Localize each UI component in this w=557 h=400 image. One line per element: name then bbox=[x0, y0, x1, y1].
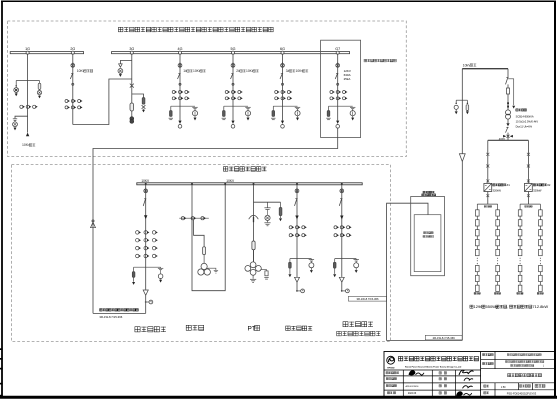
svg-text:10Kv: 10Kv bbox=[77, 69, 85, 73]
contact dot bbox=[179, 83, 181, 85]
fuse branch with ground bbox=[328, 106, 330, 110]
SVG cabinet inner label bbox=[424, 232, 426, 234]
svg-text:2R-1W-8.7/15-366: 2R-1W-8.7/15-366 bbox=[433, 336, 456, 340]
string header tiny label bbox=[484, 206, 486, 208]
CT cluster 4x3 bbox=[136, 231, 140, 235]
cable code box 2R-1W-8.7/15-366 bbox=[425, 335, 462, 340]
PT cabinet top branch bar bbox=[254, 201, 281, 203]
svg-text:#1: #1 bbox=[507, 183, 511, 187]
disconnector bbox=[144, 198, 146, 200]
plug arrow bbox=[144, 215, 147, 219]
bus junction dots bbox=[145, 183, 147, 185]
cable clock symbol bbox=[341, 282, 343, 290]
cable termination triangle bbox=[143, 290, 148, 295]
PT branch bbox=[310, 259, 312, 260]
PV string column x=520.1 bbox=[519, 204, 521, 256]
breaker symbol bbox=[341, 188, 343, 189]
string name tiny label bbox=[537, 292, 539, 294]
svg-text:3#: 3# bbox=[286, 69, 290, 73]
fuse branch with ground bbox=[170, 106, 172, 110]
metering PT drop wire bbox=[194, 220, 205, 247]
title block outer frame bbox=[384, 352, 555, 397]
svg-text:PSD-FD024002(2F)SY03: PSD-FD024002(2F)SY03 bbox=[507, 391, 537, 395]
PV string column x=477.3 bbox=[476, 204, 478, 256]
breaker symbol bbox=[296, 188, 298, 189]
signature cursive row3 bbox=[463, 386, 473, 389]
inverter drop wire bbox=[487, 140, 489, 183]
SVG cabinet inner box bbox=[414, 215, 441, 272]
capacitor-PT drop bbox=[267, 202, 269, 208]
svg-text:10KV: 10KV bbox=[141, 179, 150, 183]
PT 4-winding cloverleaf bbox=[250, 262, 256, 268]
PV string column x=540.4 bbox=[539, 204, 541, 256]
PT branch with earthing bbox=[245, 106, 250, 108]
svg-text:,: , bbox=[507, 304, 508, 309]
disconnector bbox=[231, 73, 233, 75]
wire to riser bbox=[145, 303, 147, 314]
drawout arc on PT feeder bbox=[249, 215, 259, 219]
metering PT 3-winding cluster bbox=[201, 263, 207, 269]
contact dot bbox=[232, 83, 234, 85]
DC header wire bbox=[487, 192, 489, 205]
label (reserved installation position) bbox=[337, 331, 342, 336]
cable terminal triangle bbox=[459, 154, 465, 162]
breaker symbol bbox=[179, 62, 181, 63]
CT cluster 2x3 bbox=[172, 91, 175, 94]
feeder main wire x=337.7 bbox=[337, 54, 339, 121]
cable destination annotation (dark) bbox=[100, 309, 102, 311]
PT branch with earthing bbox=[295, 106, 300, 108]
3G main fuse bbox=[130, 103, 134, 111]
load switch rect bbox=[507, 88, 510, 94]
dashed enclosure: original switch station bbox=[8, 21, 407, 157]
PT cluster earthing bbox=[252, 275, 254, 279]
label PV outgoing cabinet bbox=[135, 327, 140, 332]
metering CT row bbox=[179, 217, 209, 219]
cabinet box around feeder G7 bbox=[321, 40, 361, 137]
10KV busbar of PV station bbox=[137, 183, 362, 185]
PT branch bbox=[160, 267, 162, 268]
svg-text:4G: 4G bbox=[178, 47, 183, 51]
cable arrow and termination circle bbox=[178, 121, 181, 124]
tee bar bbox=[335, 258, 357, 260]
feeder main wire x=180 bbox=[179, 54, 181, 121]
plug arrow bbox=[295, 216, 298, 220]
svg-text:3R-1W-8.7/15-366: 3R-1W-8.7/15-366 bbox=[356, 297, 379, 301]
svg-text:10.5±2x2.5%/0.4kV: 10.5±2x2.5%/0.4kV bbox=[516, 119, 539, 123]
bypass PT branch bbox=[508, 79, 514, 106]
PT branch with earthing bbox=[350, 106, 355, 108]
tee bar bbox=[134, 266, 161, 268]
branch tee bar bbox=[224, 105, 248, 107]
string name tiny label bbox=[494, 292, 496, 294]
3G drawout mark bbox=[130, 84, 134, 88]
bus-tie jumper wire 2G to 3G bbox=[73, 79, 132, 125]
CT row on 1G bbox=[20, 105, 23, 108]
feeder 1G incoming cable bay: main wire bbox=[27, 54, 29, 133]
PV string column x=497.6 bbox=[497, 204, 499, 256]
PV plant 10kV bus bbox=[462, 68, 508, 70]
svg-text:5G: 5G bbox=[231, 47, 236, 51]
svg-text:2024.06: 2024.06 bbox=[408, 393, 417, 395]
PT cabinet main wire bbox=[253, 185, 255, 262]
signature blob row1 bbox=[409, 371, 415, 375]
svg-text:A2340123456: A2340123456 bbox=[406, 385, 420, 388]
PV outgoing feeder main wire bbox=[145, 185, 147, 290]
svg-text:Hunan Power Source Electric Po: Hunan Power Source Electric Power Survey… bbox=[405, 366, 462, 369]
3G arrester branch bbox=[120, 61, 131, 64]
transformer branch: disconnector bbox=[507, 69, 509, 77]
CT cluster 2x3 bbox=[225, 91, 228, 94]
fuse branch with ground bbox=[223, 106, 225, 110]
svg-text:10Kv: 10Kv bbox=[296, 69, 304, 73]
grid-tie inverter box bbox=[525, 183, 533, 191]
SVG cabinet outer box bbox=[411, 197, 445, 276]
3G fused PT branch bbox=[132, 94, 144, 98]
cable termination triangle bbox=[295, 277, 300, 282]
3G voltage transformer (dark twin circles) bbox=[130, 117, 134, 121]
fuse branch bbox=[133, 267, 135, 272]
feeder 1G branch bar bbox=[16, 80, 39, 82]
cable clock symbol bbox=[145, 295, 147, 301]
svg-text:HPSED: HPSED bbox=[387, 367, 395, 369]
disconnector bbox=[295, 198, 297, 200]
cabin title label bbox=[223, 167, 227, 171]
arrester with surge counter (left drop of 1G) bbox=[15, 81, 17, 86]
branch tee bar bbox=[329, 105, 353, 107]
titleblock left labels bbox=[386, 372, 388, 374]
fuse drop with arrow bbox=[280, 202, 282, 207]
busbar II (sections 3G-G7) bbox=[112, 52, 350, 54]
2G contact dot bbox=[72, 83, 74, 85]
CT square dots bbox=[507, 102, 509, 104]
dashed enclosure: PV switching station prefab cabin bbox=[12, 165, 391, 342]
cable code box 3R-1W-8.7/15-366 (feeder 5) bbox=[348, 296, 386, 301]
CT cluster 2x3 bbox=[334, 226, 337, 229]
400V busbar bbox=[488, 139, 529, 141]
PT branch with earthing bbox=[192, 106, 197, 108]
plug arrow bbox=[340, 216, 343, 220]
SVG cabinet top label bbox=[423, 191, 425, 193]
metering cabinet outline bbox=[192, 185, 225, 291]
svg-text:Dyn11 Uk=6%: Dyn11 Uk=6% bbox=[516, 124, 533, 128]
grid-tie inverter box bbox=[484, 183, 492, 191]
breaker symbol bbox=[145, 188, 147, 189]
horizontal wire to station riser bbox=[93, 312, 146, 314]
contact dot bbox=[281, 83, 283, 85]
disconnector bbox=[178, 73, 180, 75]
company logo bbox=[387, 356, 395, 364]
drawing title: PV primary connection diagram bbox=[508, 374, 511, 377]
tee bar bbox=[290, 258, 312, 260]
inverter drop wire bbox=[527, 140, 529, 183]
busbar I (sections 1G-2G) bbox=[10, 52, 83, 54]
2G CT cluster 2x3 bbox=[65, 100, 68, 103]
svg-text:3G: 3G bbox=[129, 47, 134, 51]
svg-text:712.8kW: 712.8kW bbox=[532, 304, 548, 309]
svg-text:#2: #2 bbox=[547, 183, 551, 187]
svg-text:10Kv: 10Kv bbox=[193, 69, 201, 73]
feeder 2G incoming breaker bay bbox=[72, 54, 74, 125]
left border fold ticks bbox=[0, 348, 3, 350]
label metering cabinet bbox=[186, 325, 191, 330]
PT cabinet line to windings bbox=[253, 250, 255, 262]
PV feeder main wire x=341.8 bbox=[341, 185, 343, 278]
label PV incoming cabinet bbox=[286, 326, 290, 330]
svg-text:10Kv: 10Kv bbox=[22, 143, 30, 147]
contact dot bbox=[337, 83, 339, 85]
breaker symbol bbox=[232, 62, 234, 63]
CT cluster 2x3 bbox=[289, 226, 292, 229]
PT cabinet fuse bbox=[252, 241, 255, 250]
page border frame bbox=[1, 0, 556, 2]
string name tiny label bbox=[474, 292, 476, 294]
PT resistor branch bbox=[260, 270, 266, 271]
signature cursive row1 col2 bbox=[459, 370, 474, 375]
LV drawout breaker marks bbox=[503, 135, 506, 138]
scale row bbox=[484, 385, 486, 387]
wire SVG cabinet to PV riser bbox=[387, 203, 463, 340]
svg-text:25kA: 25kA bbox=[344, 77, 351, 81]
PV capacity caption bbox=[470, 305, 473, 308]
disconnector bbox=[336, 73, 338, 75]
riser wire with cable terminal bbox=[461, 69, 463, 154]
2G disconnector bbox=[71, 73, 73, 75]
string name tiny label bbox=[517, 292, 519, 294]
PT fuse drop (right drop of 1G) bbox=[39, 81, 41, 84]
svg-text:6G: 6G bbox=[280, 47, 285, 51]
1G earthing PT branch bbox=[15, 116, 28, 118]
svg-text:10Kv: 10Kv bbox=[246, 69, 254, 73]
svg-text:G7: G7 bbox=[335, 47, 340, 51]
drawing number row bbox=[484, 392, 486, 394]
feeder 3G PT bay main wire bbox=[131, 54, 133, 117]
breaker symbol bbox=[282, 62, 284, 63]
PT branch bbox=[355, 259, 357, 260]
svg-text:2#: 2# bbox=[236, 69, 240, 73]
metering PT ground bbox=[207, 268, 216, 270]
LV disconnector bbox=[506, 126, 508, 128]
svg-text:320kW: 320kW bbox=[493, 188, 502, 192]
svg-text:1:50: 1:50 bbox=[501, 386, 506, 389]
inverter label bbox=[493, 184, 495, 186]
1G cable head arrow bbox=[26, 133, 29, 137]
svg-text:SCB14-800kVA: SCB14-800kVA bbox=[516, 114, 534, 118]
svg-text:1#: 1# bbox=[183, 69, 187, 73]
CT cluster 2x3 bbox=[275, 91, 278, 94]
fuse branch bbox=[334, 259, 336, 263]
title block grid lines bbox=[480, 352, 482, 397]
svg-text:2G: 2G bbox=[70, 47, 75, 51]
CT cluster 2x3 bbox=[330, 91, 333, 94]
breaker symbol bbox=[337, 62, 339, 63]
LV side arrow bbox=[507, 119, 509, 123]
PV feeder main wire x=297 bbox=[296, 185, 298, 278]
disconnector bbox=[340, 198, 342, 200]
wire G7 outgoing to PV station bbox=[93, 128, 338, 313]
transformer nameplate labels bbox=[516, 109, 518, 111]
svg-text:10KV: 10KV bbox=[226, 179, 235, 183]
title text: plant one-line system diagram (original switch station) bbox=[118, 27, 122, 31]
signature blob row4 bbox=[457, 392, 463, 396]
cable arrow and termination circle bbox=[231, 121, 234, 124]
metering fuse bbox=[203, 247, 206, 255]
svg-text:320kW: 320kW bbox=[533, 188, 542, 192]
disconnector bbox=[281, 73, 283, 75]
label HV main incoming cabinet bbox=[364, 59, 367, 62]
fuse branch with ground bbox=[272, 106, 274, 110]
signature cursive row2 bbox=[464, 378, 473, 381]
feeder main wire x=282.5 bbox=[282, 54, 284, 121]
branch tee bar bbox=[171, 105, 195, 107]
PT/arrester pair on riser bbox=[456, 99, 467, 101]
cable terminal on riser bbox=[92, 220, 94, 222]
fuse branch bbox=[289, 259, 291, 263]
cable termination triangle bbox=[339, 277, 344, 282]
cable clock symbol bbox=[296, 282, 298, 290]
owner value bbox=[507, 354, 509, 356]
string header tiny label bbox=[525, 206, 527, 208]
transformer T1 twin circles bbox=[506, 110, 511, 115]
cable arrow and termination circle bbox=[281, 121, 284, 124]
branch tee bar bbox=[273, 105, 297, 107]
label reactive compensation cabinet bbox=[343, 322, 348, 327]
right labels: owner / project name bbox=[483, 354, 485, 356]
inverter label bbox=[533, 184, 535, 186]
DC header wire bbox=[527, 192, 529, 205]
feeder main wire x=233 bbox=[232, 54, 234, 121]
svg-text:3R-1W-8.7/15-366: 3R-1W-8.7/15-366 bbox=[99, 315, 122, 319]
project name 2 lines bbox=[505, 361, 507, 363]
bus junction circles bbox=[26, 51, 29, 54]
svg-text:1G: 1G bbox=[25, 47, 30, 51]
company name (bold) bbox=[398, 357, 402, 361]
cable arrow and termination circle bbox=[336, 121, 339, 124]
